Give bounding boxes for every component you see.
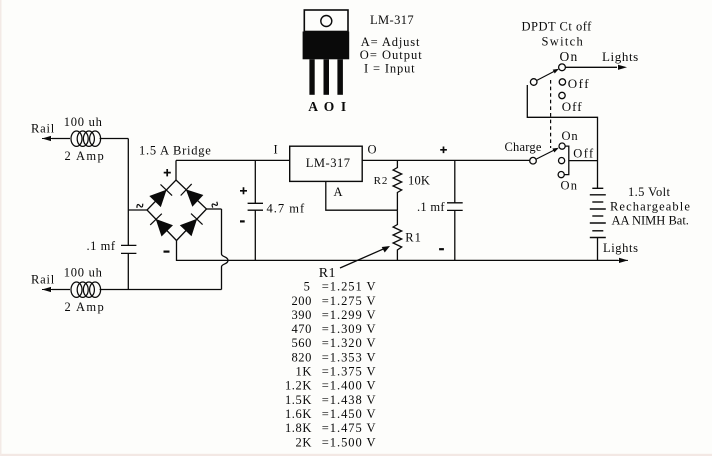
wire bridge top to bus xyxy=(175,160,177,180)
svg-text:=1.450 V: =1.450 V xyxy=(322,407,377,421)
svg-text:2 Amp: 2 Amp xyxy=(65,149,106,163)
label Off upper1 xyxy=(568,76,590,91)
svg-text:=1.353 V: =1.353 V xyxy=(322,350,377,364)
wire bridge right down with hop xyxy=(222,209,229,290)
label Rechargeable xyxy=(610,200,691,214)
svg-text:=1.475 V: =1.475 V xyxy=(322,421,377,435)
label - C3 xyxy=(439,248,444,250)
wire lights top with arrow xyxy=(566,65,628,70)
switch S1a contact Off lower xyxy=(559,92,565,98)
svg-text:1.5K: 1.5K xyxy=(285,393,312,407)
wire battery minus to bus xyxy=(597,238,599,261)
node Rail bottom label xyxy=(31,273,55,287)
svg-text:O= Output: O= Output xyxy=(360,48,423,62)
label 2 Amp top xyxy=(65,149,106,163)
svg-text:=1.375 V: =1.375 V xyxy=(322,365,377,379)
battery BT1 plates xyxy=(590,188,606,237)
label + C3 xyxy=(440,147,447,154)
label On lower-top xyxy=(562,129,579,143)
label - bridge xyxy=(164,251,170,253)
label Off upper2 xyxy=(562,99,583,114)
label Lights bottom xyxy=(603,241,639,255)
label 100 uh bottom xyxy=(64,266,103,280)
label - C1 xyxy=(240,220,245,222)
label A= Adjust xyxy=(361,35,421,49)
wire bottom rail with arrow xyxy=(42,287,70,292)
svg-text:1.5 Volt: 1.5 Volt xyxy=(628,185,670,199)
svg-text:R2: R2 xyxy=(374,175,389,187)
inductor L1 100 uh xyxy=(71,131,101,146)
wire output bus xyxy=(362,159,530,161)
switch S1a lever xyxy=(537,69,559,81)
label I input xyxy=(274,143,278,157)
wire bridge right stub xyxy=(207,208,222,210)
switch S1b lever xyxy=(536,148,559,159)
svg-text:LM-317: LM-317 xyxy=(370,13,414,27)
svg-text:Rail: Rail xyxy=(31,122,55,136)
wire top rail with arrow xyxy=(42,136,70,141)
svg-text:=1.400 V: =1.400 V xyxy=(322,379,377,393)
transistor package TO-220 legs xyxy=(309,59,343,95)
capacitor .1 mf left xyxy=(121,245,136,253)
svg-text:820: 820 xyxy=(291,350,312,364)
label A adjust xyxy=(334,185,343,199)
capacitor C3 plates xyxy=(447,203,463,211)
switch S1b contact On bottom xyxy=(558,172,564,178)
label R1 xyxy=(405,231,422,245)
svg-text:Charge: Charge xyxy=(505,140,542,154)
svg-text:5: 5 xyxy=(304,280,311,294)
label O output xyxy=(368,143,377,157)
svg-text:Off: Off xyxy=(573,147,594,161)
wire pole S1a to battery column xyxy=(527,85,597,188)
switch S1b pole xyxy=(530,157,537,164)
capacitor 4.7 mf lead top xyxy=(254,160,256,203)
label + bridge xyxy=(164,169,171,176)
diode D3 bottom-left xyxy=(150,214,172,236)
diode D1 top-left xyxy=(151,184,173,206)
label Lights top xyxy=(602,49,639,64)
wire bottom rail to bridge column xyxy=(100,289,222,291)
svg-text:Switch: Switch xyxy=(542,35,585,49)
label On upper xyxy=(560,49,579,64)
svg-text:Lights: Lights xyxy=(603,241,639,255)
resistor R1 xyxy=(393,210,402,260)
label 1.5 A Bridge xyxy=(139,144,212,158)
svg-text:=1.275 V: =1.275 V xyxy=(322,294,377,308)
label Off lower xyxy=(573,147,594,161)
mechanical link dashed xyxy=(550,80,552,148)
svg-text:100 uh: 100 uh xyxy=(64,266,103,280)
transistor package TO-220 tab xyxy=(304,10,348,32)
svg-text:390: 390 xyxy=(291,308,312,322)
svg-text:On: On xyxy=(561,179,579,193)
svg-text:200: 200 xyxy=(291,294,312,308)
label LM-317 title xyxy=(370,13,414,27)
capacitor C3 lead bottom xyxy=(454,210,456,260)
capacitor C1 4.7 mf plates xyxy=(248,203,263,210)
svg-text:I: I xyxy=(274,143,278,157)
svg-text:2 Amp: 2 Amp xyxy=(65,300,106,314)
svg-text:.1 mf: .1 mf xyxy=(87,239,116,253)
diode bridge diamond xyxy=(147,180,207,241)
node Rail top label xyxy=(31,122,55,136)
label .1 mf left xyxy=(87,239,116,253)
svg-text:AA NIMH Bat.: AA NIMH Bat. xyxy=(612,214,689,228)
svg-text:1.2K: 1.2K xyxy=(285,379,312,393)
label R1 table header xyxy=(319,266,336,281)
transistor package TO-220 body xyxy=(303,32,350,60)
svg-text:4.7 mf: 4.7 mf xyxy=(267,202,306,216)
svg-text:I = Input: I = Input xyxy=(364,62,416,76)
label 2 Amp bottom xyxy=(65,300,106,314)
inductor L2 100 uh xyxy=(71,282,101,297)
diode D4 bottom-right xyxy=(181,214,203,236)
wire bridge left stub xyxy=(128,209,147,211)
table R1 values xyxy=(285,280,377,450)
svg-text:=1.309 V: =1.309 V xyxy=(322,322,377,336)
svg-text:1.5 A Bridge: 1.5 A Bridge xyxy=(139,144,212,158)
svg-text:100 uh: 100 uh xyxy=(64,115,103,129)
svg-text:A= Adjust: A= Adjust xyxy=(361,35,421,49)
op-amp U1 LM-317 regulator box xyxy=(290,146,363,181)
diode D2 top-right xyxy=(181,184,203,206)
label Charge xyxy=(505,140,542,154)
resistor R2 xyxy=(393,160,402,210)
svg-text:LM-317: LM-317 xyxy=(306,156,351,170)
capacitor 4.7 mf lead bottom xyxy=(254,210,256,260)
svg-text:2K: 2K xyxy=(296,435,312,449)
svg-text:.1 mf: .1 mf xyxy=(417,200,445,214)
svg-text:=1.500 V: =1.500 V xyxy=(322,435,377,449)
wire bottom bus xyxy=(177,241,629,264)
svg-text:=1.320 V: =1.320 V xyxy=(322,336,377,350)
label DPDT Ct off xyxy=(522,20,593,34)
svg-text:10K: 10K xyxy=(408,174,430,188)
label 100 uh top xyxy=(64,115,103,129)
svg-text:=1.251 V: =1.251 V xyxy=(322,280,377,294)
label 10K xyxy=(408,174,430,188)
label On lower-bottom xyxy=(561,179,579,193)
wire adjust xyxy=(326,181,398,210)
svg-text:Off: Off xyxy=(568,76,590,91)
arrow to R1 xyxy=(340,246,390,268)
svg-text:470: 470 xyxy=(291,322,312,336)
label ~ right xyxy=(211,201,219,209)
svg-text:A: A xyxy=(334,185,343,199)
wire vertical AC line left lower xyxy=(127,253,129,289)
svg-text:R1: R1 xyxy=(405,231,422,245)
wire S1b bracket xyxy=(564,146,597,175)
switch S1a contact Off middle xyxy=(559,79,565,85)
svg-text:560: 560 xyxy=(291,336,312,350)
label Switch xyxy=(542,35,585,49)
label O= Output xyxy=(360,48,423,62)
switch S1b contact On top xyxy=(559,143,565,149)
capacitor C3 .1 mf lead top xyxy=(454,160,456,202)
label R2 xyxy=(374,175,389,187)
label ~ left xyxy=(136,202,144,209)
svg-text:1.6K: 1.6K xyxy=(285,407,312,421)
label A O I pins xyxy=(308,99,348,114)
label AA NIMH Bat. xyxy=(612,214,689,228)
label I = Input xyxy=(364,62,416,76)
svg-text:On: On xyxy=(560,49,579,64)
switch S1a contact On xyxy=(559,64,566,71)
label .1 mf right xyxy=(417,200,445,214)
svg-text:A O I: A O I xyxy=(308,99,348,114)
svg-text:1K: 1K xyxy=(296,365,312,379)
svg-text:DPDT Ct off: DPDT Ct off xyxy=(522,20,593,34)
wire vertical AC line left xyxy=(127,139,129,246)
svg-text:=1.438 V: =1.438 V xyxy=(322,393,377,407)
svg-text:=1.299 V: =1.299 V xyxy=(322,308,377,322)
svg-text:Off: Off xyxy=(562,99,583,114)
switch S1a pole xyxy=(530,79,537,86)
label 4.7 mf xyxy=(267,202,306,216)
switch S1b contact Off xyxy=(559,158,565,164)
svg-text:Lights: Lights xyxy=(602,49,639,64)
wire top rail to corner xyxy=(100,138,129,140)
svg-text:Rail: Rail xyxy=(31,273,55,287)
label + C1 xyxy=(240,187,247,194)
svg-text:Rechargeable: Rechargeable xyxy=(610,200,691,214)
svg-text:O: O xyxy=(368,143,377,157)
svg-text:On: On xyxy=(562,129,579,143)
label 1.5 Volt xyxy=(628,185,670,199)
wire input bus xyxy=(176,159,290,161)
svg-text:1.8K: 1.8K xyxy=(285,421,312,435)
